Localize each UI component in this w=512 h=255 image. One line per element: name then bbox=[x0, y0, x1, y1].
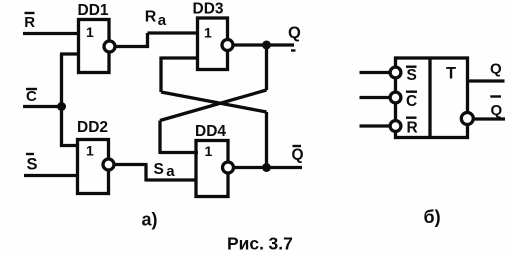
svg-text:R: R bbox=[24, 14, 35, 31]
svg-text:R: R bbox=[145, 9, 157, 26]
svg-text:DD1: DD1 bbox=[78, 2, 109, 19]
svg-text:DD3: DD3 bbox=[193, 1, 224, 18]
svg-text:DD4: DD4 bbox=[195, 123, 226, 140]
svg-text:a: a bbox=[158, 12, 167, 29]
svg-text:a: a bbox=[166, 163, 175, 180]
svg-text:C: C bbox=[406, 93, 417, 110]
svg-text:1: 1 bbox=[204, 25, 212, 41]
svg-text:R: R bbox=[407, 120, 418, 137]
svg-text:1: 1 bbox=[86, 143, 94, 159]
svg-text:Рис.: Рис. bbox=[227, 234, 264, 254]
svg-text:Q: Q bbox=[288, 24, 301, 42]
svg-text:б): б) bbox=[424, 207, 441, 227]
svg-text:T: T bbox=[446, 65, 456, 83]
svg-text:3.7: 3.7 bbox=[269, 234, 293, 254]
svg-text:S: S bbox=[407, 67, 417, 84]
svg-text:1: 1 bbox=[205, 143, 213, 159]
svg-text:1: 1 bbox=[86, 24, 94, 40]
svg-text:Q: Q bbox=[491, 102, 503, 119]
svg-text:Q: Q bbox=[292, 147, 304, 164]
svg-text:DD2: DD2 bbox=[77, 119, 108, 136]
svg-text:Q: Q bbox=[490, 61, 502, 78]
svg-text:S: S bbox=[27, 156, 38, 174]
svg-text:S: S bbox=[154, 161, 164, 178]
svg-text:C: C bbox=[26, 88, 37, 105]
svg-text:а): а) bbox=[142, 210, 158, 230]
